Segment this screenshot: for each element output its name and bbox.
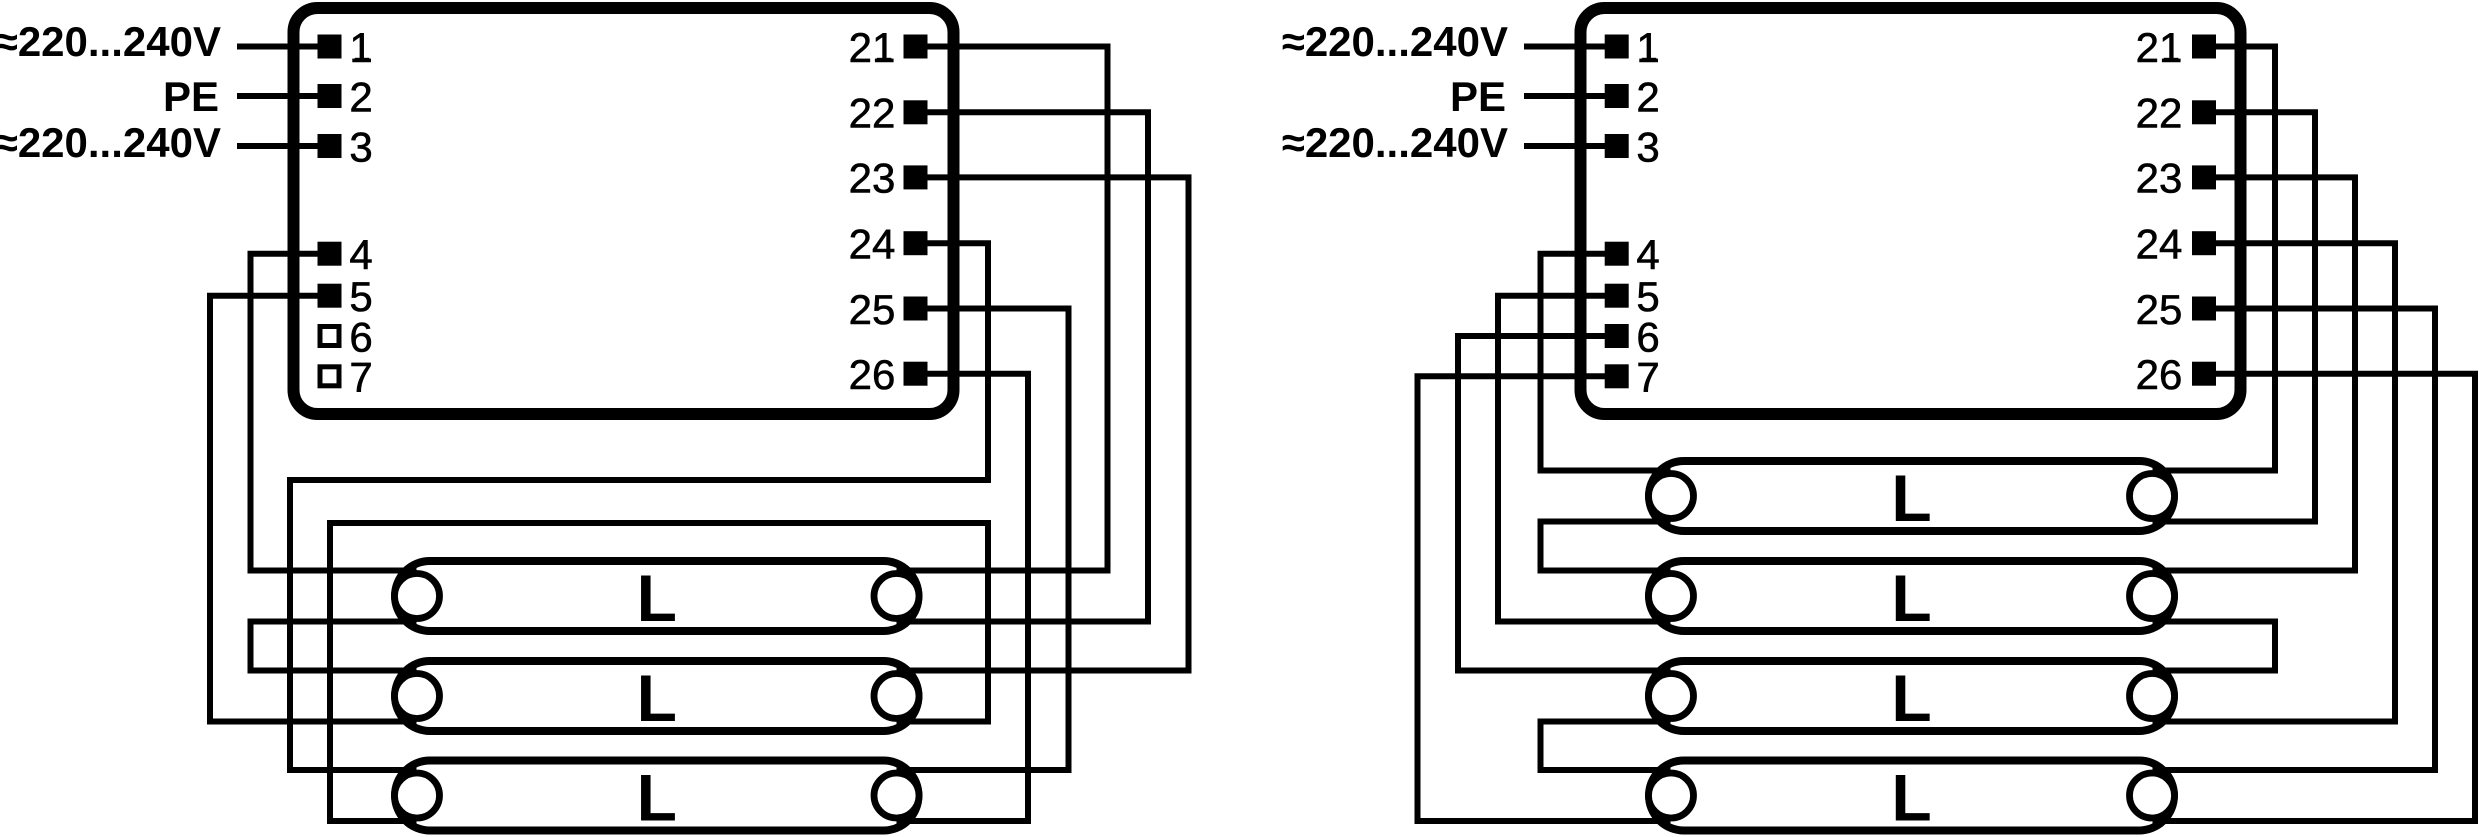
lamp LBD label L [1891, 761, 1931, 835]
terminal 21 A [849, 24, 928, 71]
svg-text:22: 22 [2136, 90, 2183, 137]
terminal 7 B [1605, 354, 1660, 401]
terminal 22 A [849, 90, 928, 137]
terminal 25 B [2136, 286, 2216, 333]
wire lamp LBC lower-left pin to lamp LBD upper-left pin [1541, 722, 1671, 771]
lamp LBD right filament [2130, 773, 2175, 818]
wire terminal 22 to lamp LAA lower-right pin [897, 112, 1149, 621]
terminal 23 A [849, 155, 928, 202]
wire terminal 24 to lamp LAC upper-left pin [290, 243, 988, 770]
lamp LAA right filament [874, 574, 919, 619]
svg-text:25: 25 [849, 286, 896, 333]
svg-text:≈220...240V: ≈220...240V [1282, 18, 1508, 65]
svg-text:21: 21 [849, 24, 896, 71]
net label ≈220...240V (line to pin 3) A [0, 119, 221, 166]
svg-text:2: 2 [1636, 73, 1659, 120]
lamp LAC left filament [395, 773, 440, 818]
wire terminal 24 to lamp LBC lower-right pin [2153, 243, 2396, 721]
PE input wire to pin 2 B [1524, 93, 1617, 99]
terminal 4 A [318, 231, 373, 278]
wire terminal 21 to lamp LBA upper-right pin [2153, 47, 2276, 471]
wire terminal 7 to lamp LBD lower-left pin [1418, 376, 1671, 821]
svg-text:23: 23 [849, 155, 896, 202]
lamp LBB label L [1891, 561, 1931, 635]
terminal 5 B [1605, 273, 1660, 320]
svg-text:L: L [637, 761, 677, 835]
svg-text:≈220...240V: ≈220...240V [1282, 119, 1508, 166]
svg-text:7: 7 [349, 354, 372, 401]
svg-text:26: 26 [849, 351, 896, 398]
terminal 3 B [1605, 123, 1660, 170]
terminal 24 A [849, 221, 928, 268]
lamp LBC right filament [2130, 674, 2175, 719]
lamp LBA tube [1649, 461, 2174, 531]
svg-text:23: 23 [2136, 155, 2183, 202]
svg-text:7: 7 [1636, 354, 1659, 401]
ballast box B [1581, 8, 2241, 414]
lamp LBA label L [1891, 461, 1931, 535]
svg-text:2: 2 [349, 73, 372, 120]
lamp LAB left filament [395, 674, 440, 719]
L input wire to pin 1 A [237, 44, 330, 50]
wire terminal 23 to lamp LBB upper-right pin [2153, 177, 2356, 570]
lamp LBC label L [1891, 661, 1931, 735]
lamp LAB tube [395, 661, 919, 731]
terminal 26 B [2136, 351, 2216, 398]
lamp LAC label L [637, 761, 677, 835]
svg-text:≈220...240V: ≈220...240V [0, 119, 221, 166]
terminal 1 A [318, 24, 373, 71]
wire lamp LBA lower-left pin to lamp LBB upper-left pin [1541, 522, 1671, 571]
svg-text:L: L [637, 561, 677, 635]
lamp LBC tube [1649, 661, 2174, 731]
wire terminal 25 to lamp LAC upper-right pin [897, 309, 1069, 771]
svg-text:26: 26 [2136, 351, 2183, 398]
wire terminal 26 to lamp LBD lower-right pin [2153, 374, 2476, 821]
terminal 25 A [849, 286, 928, 333]
lamp LBA left filament [1649, 474, 1694, 519]
lamp LBB right filament [2130, 574, 2175, 619]
net label PE (line to pin 2) B [1450, 73, 1506, 120]
terminal 1 B [1605, 24, 1660, 71]
wire terminal 4 to lamp LBA upper-left pin [1541, 254, 1671, 471]
lamp LBB tube [1649, 561, 2174, 631]
wire lamp LAB lower-right pin to lamp LAC lower-left pin [330, 523, 988, 821]
svg-text:3: 3 [349, 123, 372, 170]
svg-text:L: L [1891, 761, 1931, 835]
terminal 2 B [1605, 73, 1660, 120]
lamp LAC right filament [874, 773, 919, 818]
svg-text:L: L [1891, 461, 1931, 535]
lamp LBC left filament [1649, 674, 1694, 719]
lamp LAA tube [395, 561, 919, 631]
svg-text:4: 4 [1636, 231, 1659, 278]
terminal 3 A [318, 123, 373, 170]
terminal 26 A [849, 351, 928, 398]
net label PE (line to pin 2) A [163, 73, 219, 120]
lamp LBA right filament [2130, 474, 2175, 519]
PE input wire to pin 2 A [237, 93, 330, 99]
svg-text:L: L [1891, 661, 1931, 735]
lamp LAB label L [637, 661, 677, 735]
net label ≈220...240V (line to pin 1) B [1282, 18, 1508, 65]
terminal 7 A [320, 354, 373, 401]
svg-text:4: 4 [349, 231, 372, 278]
terminal 24 B [2136, 221, 2216, 268]
svg-text:L: L [637, 661, 677, 735]
svg-text:24: 24 [2136, 221, 2183, 268]
L input wire to pin 1 B [1524, 44, 1617, 50]
svg-text:24: 24 [849, 221, 896, 268]
svg-text:1: 1 [349, 24, 372, 71]
wire terminal 26 to lamp LAC lower-right pin [897, 374, 1029, 821]
wire lamp LBB lower-right pin to lamp LBC upper-right pin [2153, 622, 2276, 671]
ballast box A [294, 8, 954, 414]
svg-text:25: 25 [2136, 286, 2183, 333]
lamp LBD tube [1649, 761, 2174, 831]
svg-text:PE: PE [1450, 73, 1506, 120]
svg-text:21: 21 [2136, 24, 2183, 71]
terminal 23 B [2136, 155, 2216, 202]
wire terminal 25 to lamp LBD upper-right pin [2153, 309, 2436, 771]
terminal 6 A [320, 313, 373, 360]
wire terminal 21 to lamp LAA upper-right pin [897, 47, 1108, 571]
terminal 21 B [2136, 24, 2216, 71]
lamp LBD left filament [1649, 773, 1694, 818]
N input wire to pin 3 A [237, 143, 330, 149]
svg-text:≈220...240V: ≈220...240V [0, 18, 221, 65]
svg-text:1: 1 [1636, 24, 1659, 71]
wire terminal 6 to lamp LBC upper-left pin [1458, 336, 1671, 671]
net label ≈220...240V (line to pin 1) A [0, 18, 221, 65]
lamp LAC tube [395, 761, 919, 831]
terminal 5 A [318, 273, 373, 320]
wire terminal 5 to lamp LBB lower-left pin [1498, 296, 1671, 622]
svg-text:3: 3 [1636, 123, 1659, 170]
N input wire to pin 3 B [1524, 143, 1617, 149]
lamp LAA label L [637, 561, 677, 635]
lamp LAB right filament [874, 674, 919, 719]
svg-text:PE: PE [163, 73, 219, 120]
svg-text:22: 22 [849, 90, 896, 137]
net label ≈220...240V (line to pin 3) B [1282, 119, 1508, 166]
wire terminal 4 to lamp LAA upper-left pin [251, 254, 417, 571]
wire terminal 23 to lamp LAB upper-right pin [897, 177, 1189, 670]
terminal 2 A [318, 73, 373, 120]
terminal 4 B [1605, 231, 1660, 278]
wire terminal 22 to lamp LBA lower-right pin [2153, 112, 2316, 521]
lamp LBB left filament [1649, 574, 1694, 619]
svg-text:L: L [1891, 561, 1931, 635]
terminal 6 B [1605, 313, 1660, 360]
wire lamp LAA lower-left pin to lamp LAB upper-left pin [251, 622, 417, 671]
terminal 22 B [2136, 90, 2216, 137]
wire terminal 5 to lamp LAB lower-left pin [210, 296, 417, 722]
lamp LAA left filament [395, 574, 440, 619]
